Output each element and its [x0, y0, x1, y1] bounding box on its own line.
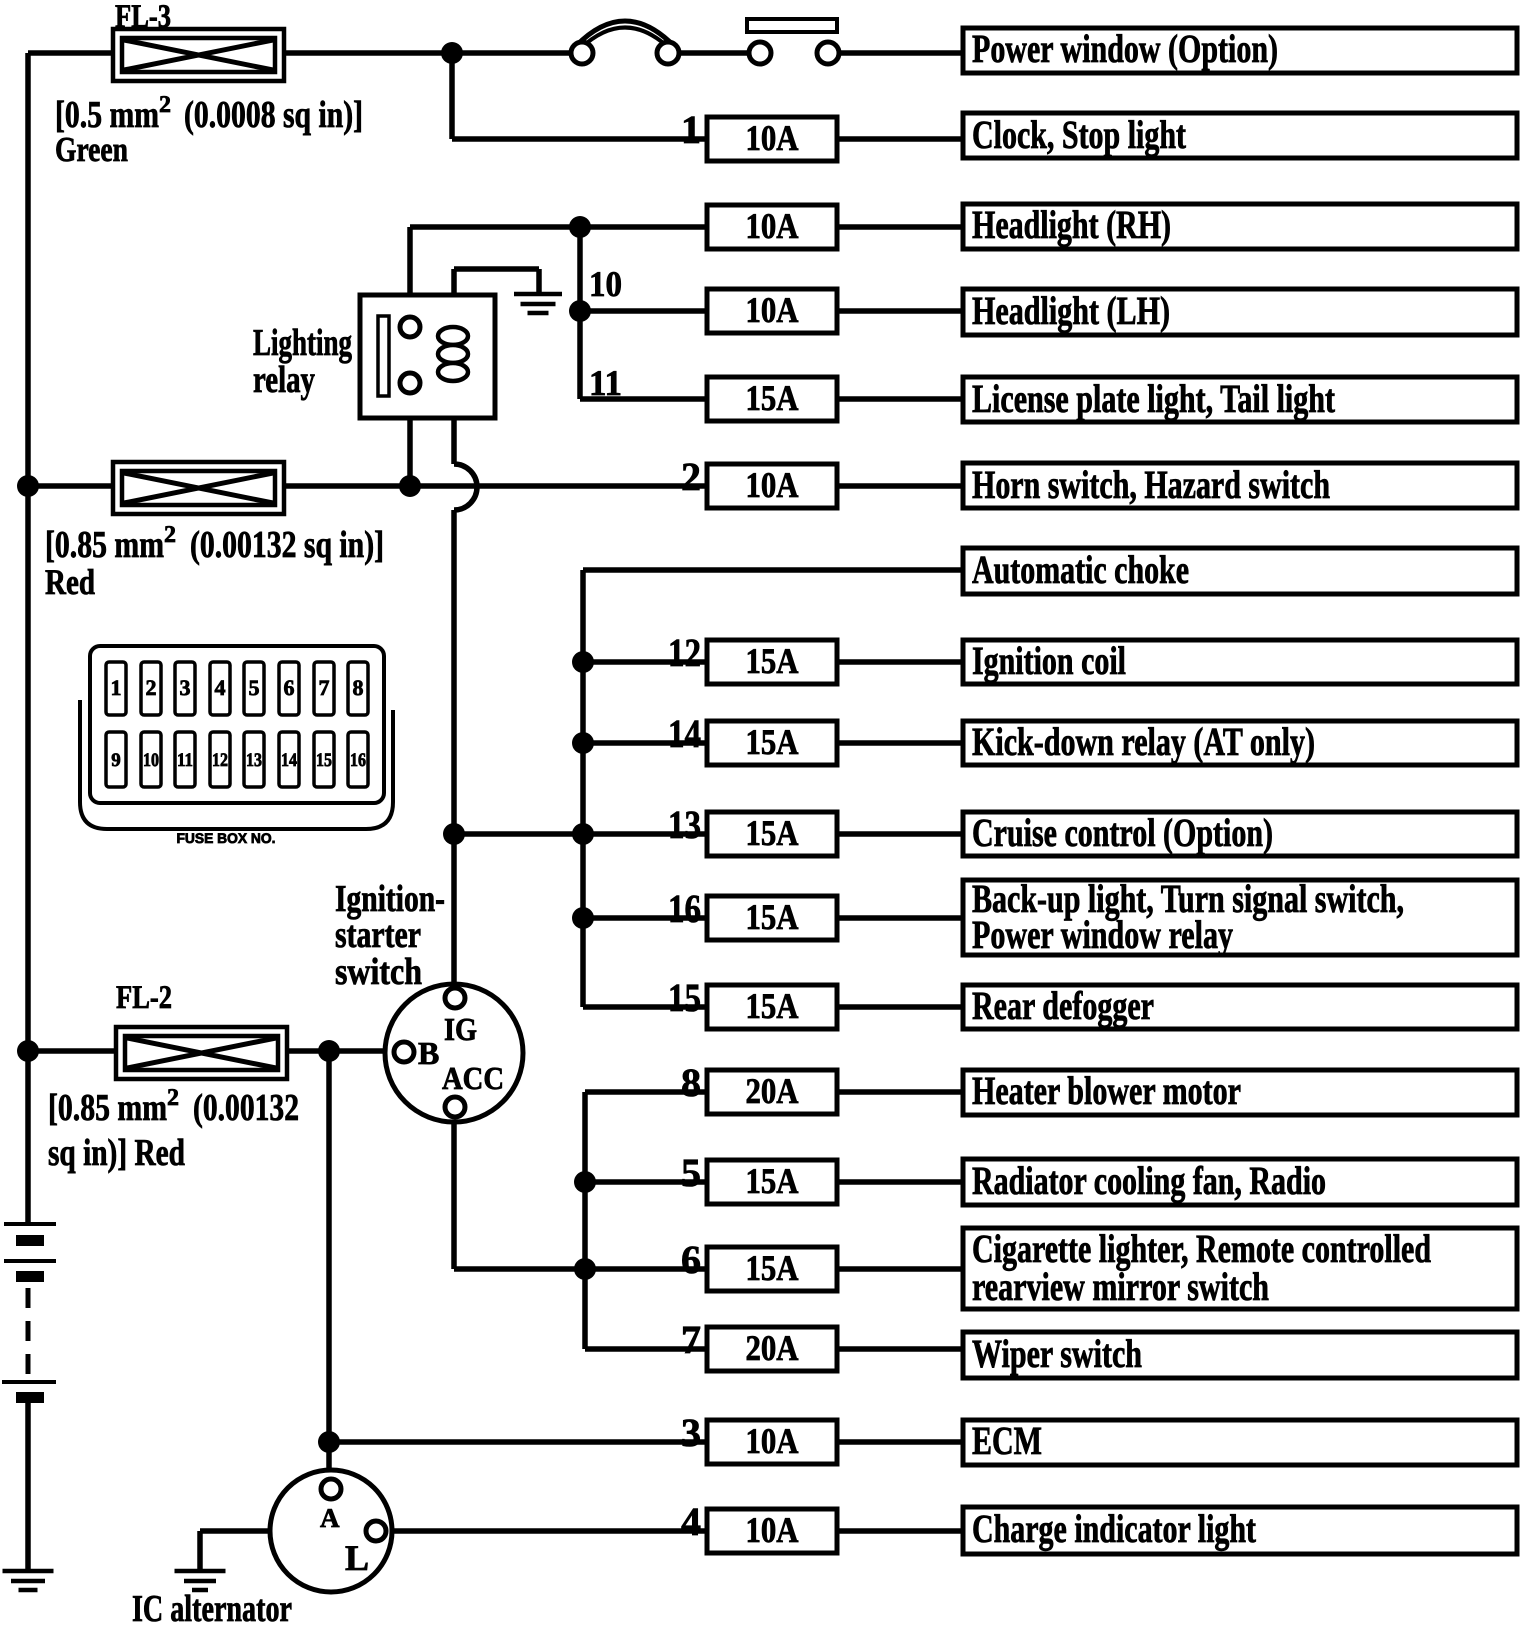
svg-text:20A: 20A [746, 1071, 799, 1111]
svg-text:Horn switch, Hazard switch: Horn switch, Hazard switch [972, 462, 1330, 507]
svg-text:IG: IG [444, 1011, 477, 1047]
svg-text:B: B [418, 1035, 439, 1071]
svg-text:FUSE BOX NO.: FUSE BOX NO. [177, 830, 276, 846]
svg-text:10A: 10A [746, 1421, 799, 1461]
svg-text:15A: 15A [746, 813, 799, 853]
svg-text:Radiator cooling fan, Radio: Radiator cooling fan, Radio [972, 1158, 1326, 1203]
svg-text:IC alternator: IC alternator [132, 1588, 292, 1628]
svg-text:15: 15 [316, 750, 332, 771]
svg-text:7: 7 [319, 675, 330, 700]
svg-text:13: 13 [668, 802, 701, 847]
svg-text:10A: 10A [746, 118, 799, 158]
svg-text:10: 10 [589, 264, 622, 304]
svg-text:Power window relay: Power window relay [972, 912, 1233, 957]
svg-text:16: 16 [350, 750, 366, 771]
svg-text:6: 6 [681, 1237, 701, 1282]
svg-text:1: 1 [111, 675, 122, 700]
svg-text:10A: 10A [746, 290, 799, 330]
svg-text:15A: 15A [746, 378, 799, 418]
svg-text:[0.85 mm: [0.85 mm [45, 524, 164, 566]
svg-text:5: 5 [249, 675, 260, 700]
svg-text:Charge indicator light: Charge indicator light [972, 1506, 1257, 1551]
svg-text:15: 15 [668, 975, 701, 1020]
svg-text:ECM: ECM [972, 1418, 1042, 1463]
svg-text:Wiper switch: Wiper switch [972, 1331, 1142, 1376]
svg-text:2: 2 [146, 675, 157, 700]
svg-text:15A: 15A [746, 986, 799, 1026]
svg-text:14: 14 [281, 750, 297, 771]
svg-text:A: A [320, 1503, 340, 1533]
svg-text:9: 9 [111, 750, 121, 771]
svg-text:10A: 10A [746, 465, 799, 505]
svg-text:starter: starter [335, 914, 421, 956]
svg-text:15A: 15A [746, 641, 799, 681]
svg-text:(0.00132: (0.00132 [193, 1087, 299, 1129]
svg-text:Red: Red [45, 562, 95, 602]
svg-text:License plate light, Tail ligh: License plate light, Tail light [972, 376, 1336, 421]
svg-text:1: 1 [681, 107, 701, 152]
svg-text:3: 3 [180, 675, 191, 700]
svg-text:4: 4 [681, 1499, 701, 1544]
svg-text:FL-3: FL-3 [115, 0, 171, 35]
svg-text:11: 11 [177, 750, 193, 771]
svg-text:Power window (Option): Power window (Option) [972, 26, 1278, 71]
svg-text:switch: switch [335, 951, 422, 993]
svg-text:Headlight (RH): Headlight (RH) [972, 202, 1171, 247]
svg-text:3: 3 [681, 1410, 701, 1455]
svg-text:8: 8 [353, 675, 364, 700]
svg-text:2: 2 [159, 92, 171, 118]
svg-text:6: 6 [284, 675, 295, 700]
svg-text:15A: 15A [746, 722, 799, 762]
svg-text:Automatic choke: Automatic choke [972, 547, 1189, 592]
svg-text:10A: 10A [746, 1510, 799, 1550]
svg-text:15A: 15A [746, 897, 799, 937]
svg-text:12: 12 [212, 750, 228, 771]
svg-text:5: 5 [681, 1150, 701, 1195]
svg-text:Ignition coil: Ignition coil [972, 638, 1126, 683]
svg-text:Green: Green [55, 130, 128, 169]
svg-text:2: 2 [681, 454, 701, 499]
svg-text:2: 2 [164, 522, 176, 548]
svg-text:Rear defogger: Rear defogger [972, 983, 1154, 1028]
svg-text:(0.00132 sq in)]: (0.00132 sq in)] [190, 524, 384, 566]
svg-text:10A: 10A [746, 206, 799, 246]
svg-text:7: 7 [681, 1317, 701, 1362]
svg-text:Lighting: Lighting [253, 322, 352, 364]
svg-text:L: L [345, 1538, 369, 1578]
svg-text:13: 13 [246, 750, 262, 771]
svg-text:sq in)] Red: sq in)] Red [48, 1132, 185, 1174]
svg-text:12: 12 [668, 630, 701, 675]
svg-text:Headlight (LH): Headlight (LH) [972, 288, 1170, 333]
svg-text:ACC: ACC [442, 1060, 504, 1096]
svg-text:15A: 15A [746, 1248, 799, 1288]
svg-text:Kick-down relay (AT only): Kick-down relay (AT only) [972, 719, 1315, 764]
svg-text:Heater blower motor: Heater blower motor [972, 1068, 1241, 1113]
svg-text:Cruise control (Option): Cruise control (Option) [972, 810, 1273, 855]
svg-text:(0.0008 sq in)]: (0.0008 sq in)] [184, 94, 363, 136]
svg-text:FL-2: FL-2 [116, 980, 172, 1016]
svg-text:11: 11 [589, 363, 622, 403]
svg-text:[0.85 mm: [0.85 mm [48, 1087, 167, 1129]
svg-text:10: 10 [143, 750, 159, 771]
svg-text:8: 8 [681, 1060, 701, 1105]
svg-text:20A: 20A [746, 1328, 799, 1368]
svg-text:14: 14 [668, 711, 701, 756]
svg-text:rearview mirror switch: rearview mirror switch [972, 1264, 1269, 1309]
svg-text:16: 16 [668, 886, 701, 931]
svg-text:2: 2 [167, 1085, 179, 1111]
svg-text:15A: 15A [746, 1161, 799, 1201]
svg-text:4: 4 [215, 675, 226, 700]
svg-text:relay: relay [253, 359, 315, 401]
svg-text:Clock, Stop light: Clock, Stop light [972, 112, 1187, 157]
